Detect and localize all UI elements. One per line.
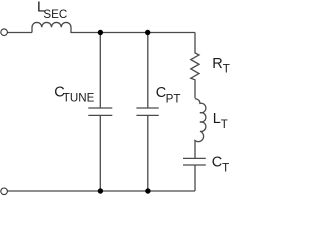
svg-text:L: L (213, 111, 221, 127)
svg-text:PT: PT (166, 92, 181, 105)
svg-text:T: T (223, 63, 230, 76)
svg-text:T: T (222, 161, 229, 174)
svg-text:T: T (221, 118, 228, 131)
svg-text:TUNE: TUNE (63, 91, 95, 104)
svg-text:SEC: SEC (43, 8, 67, 21)
svg-text:C: C (212, 155, 222, 171)
svg-text:R: R (212, 56, 222, 72)
